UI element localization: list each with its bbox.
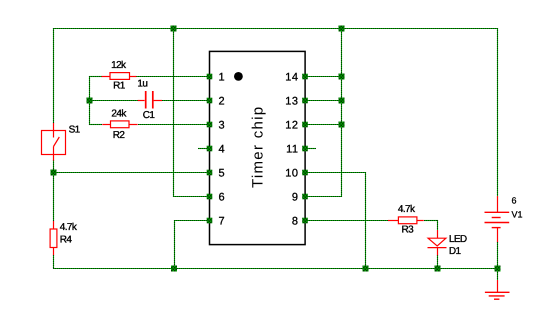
svg-text:6: 6 <box>512 196 517 206</box>
svg-text:R3: R3 <box>402 225 415 236</box>
svg-text:1u: 1u <box>137 79 147 90</box>
svg-text:24k: 24k <box>111 108 127 119</box>
svg-text:4.7k: 4.7k <box>60 222 78 233</box>
svg-text:6: 6 <box>219 192 226 204</box>
svg-text:3: 3 <box>219 120 226 132</box>
svg-text:4: 4 <box>219 144 226 156</box>
svg-text:1: 1 <box>219 72 226 84</box>
svg-text:2: 2 <box>219 96 226 108</box>
svg-text:V1: V1 <box>512 209 523 219</box>
svg-text:R2: R2 <box>113 130 126 141</box>
svg-text:4.7k: 4.7k <box>398 204 416 215</box>
svg-text:C1: C1 <box>143 110 156 121</box>
svg-text:14: 14 <box>285 72 298 84</box>
svg-text:12k: 12k <box>111 60 127 71</box>
svg-text:5: 5 <box>219 168 226 180</box>
svg-text:13: 13 <box>285 96 298 108</box>
svg-text:R4: R4 <box>60 234 73 245</box>
svg-text:LED: LED <box>449 234 467 245</box>
svg-text:11: 11 <box>286 144 298 156</box>
svg-text:8: 8 <box>292 216 299 228</box>
svg-text:S1: S1 <box>69 125 81 136</box>
svg-text:10: 10 <box>285 168 298 180</box>
svg-text:R1: R1 <box>113 81 126 92</box>
svg-text:D1: D1 <box>449 246 462 257</box>
svg-text:Timer chip: Timer chip <box>250 106 267 188</box>
svg-text:7: 7 <box>219 216 226 228</box>
svg-text:9: 9 <box>292 192 299 204</box>
svg-text:12: 12 <box>285 120 298 132</box>
